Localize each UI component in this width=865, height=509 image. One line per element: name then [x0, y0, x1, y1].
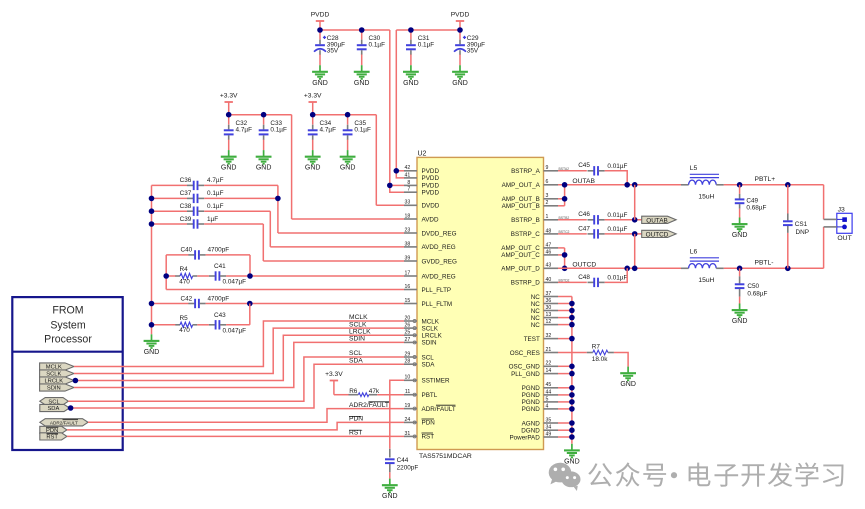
junction bus/C38: [149, 208, 155, 214]
wire pin 47: [558, 247, 565, 249]
svg-text:DVDD_REG: DVDD_REG: [422, 230, 457, 237]
svg-text:PVDD: PVDD: [451, 12, 470, 19]
capacitor C33: [263, 125, 265, 130]
wire OSC_RES: [558, 352, 587, 354]
pin 26 SCLK: [404, 327, 417, 329]
svg-text:GND: GND: [732, 318, 748, 325]
svg-text:AVDD: AVDD: [422, 216, 439, 223]
wire C37 left: [152, 197, 188, 199]
ground C50: [732, 304, 748, 318]
svg-text:C42: C42: [181, 295, 193, 302]
pin 30 NC: [544, 310, 559, 312]
wire PBTL+: [724, 184, 824, 186]
svg-text:AMP_OUT_C: AMP_OUT_C: [501, 245, 540, 252]
pin 34 DGND: [544, 429, 559, 431]
wire to pin 42: [396, 170, 404, 172]
svg-text:+3.3V: +3.3V: [325, 371, 343, 378]
pin 49 PowerPAD: [544, 436, 559, 438]
svg-text:43: 43: [546, 263, 552, 269]
wire to pin 33 DVDD: [376, 204, 404, 206]
svg-text:C38: C38: [180, 203, 192, 210]
wire R5-C43: [197, 324, 209, 326]
wire C30 top: [361, 30, 363, 40]
svg-text:48: 48: [546, 228, 552, 234]
svg-text:PVDD: PVDD: [422, 168, 440, 175]
junction C37/C36: [275, 196, 281, 202]
junction gnd bus: [569, 427, 575, 433]
pin 4 PGND: [544, 408, 559, 410]
wire to gnd bus: [558, 422, 572, 424]
wire pin 1 to C46: [558, 219, 587, 221]
junction gnd bus: [569, 399, 575, 405]
svg-text:OUTCD: OUTCD: [572, 261, 596, 268]
svg-text:AMP_OUT_B: AMP_OUT_B: [502, 203, 540, 210]
svg-text:OUTAB: OUTAB: [646, 217, 668, 224]
svg-text:14: 14: [546, 368, 552, 374]
svg-text:31: 31: [405, 431, 411, 437]
wire to pin 38 AVDD_REG: [270, 246, 404, 248]
wire C49 bottom: [739, 209, 741, 218]
capacitor: [209, 324, 215, 326]
junction pin46: [562, 252, 568, 258]
junction CS1 top: [785, 182, 791, 188]
wire 3.3V stem 2: [312, 102, 314, 115]
junction PVDD/C28: [317, 27, 323, 33]
pin 38 AVDD_REG: [404, 246, 417, 248]
wire C35 bottom: [347, 140, 349, 151]
svg-text:BSTRP_C: BSTRP_C: [511, 231, 540, 238]
wire to gnd bus: [558, 338, 572, 340]
svg-text:GND: GND: [732, 232, 748, 239]
wire to pin 18 AVDD: [292, 218, 404, 220]
svg-text:27: 27: [405, 337, 411, 343]
wire gnd bus vertical: [571, 297, 573, 444]
svg-text:PGND: PGND: [522, 385, 541, 392]
svg-text:28: 28: [405, 359, 411, 365]
svg-text:PVDD: PVDD: [422, 175, 440, 182]
svg-text:SCL: SCL: [349, 350, 362, 357]
junction gnd bus: [569, 420, 575, 426]
junction gnd bus: [569, 385, 575, 391]
capacitor C32: [228, 125, 230, 130]
svg-text:MCLK: MCLK: [422, 318, 440, 325]
svg-text:4.7µF: 4.7µF: [320, 126, 337, 133]
svg-text:C44: C44: [397, 457, 409, 464]
svg-text:PGND: PGND: [522, 399, 541, 406]
svg-text:LRCLK: LRCLK: [422, 333, 443, 340]
svg-text:PLL_GND: PLL_GND: [511, 371, 540, 378]
svg-text:C39: C39: [180, 216, 192, 223]
capacitor C39: [187, 223, 193, 225]
pin 32 TEST: [544, 338, 559, 340]
svg-text:9: 9: [546, 165, 549, 171]
svg-text:C36: C36: [180, 177, 192, 184]
svg-text:17: 17: [405, 270, 411, 276]
svg-text:SDIN: SDIN: [422, 340, 437, 347]
wire R6 to pin 11 PBTL: [377, 394, 404, 396]
svg-text:AVDD_REG: AVDD_REG: [422, 244, 456, 251]
svg-text:AMP_OUT_C: AMP_OUT_C: [501, 252, 540, 259]
svg-text:33: 33: [405, 200, 411, 206]
svg-text:37: 37: [546, 291, 552, 297]
junction C35: [345, 112, 351, 118]
ground IC bus: [564, 444, 580, 458]
svg-text:470: 470: [179, 278, 190, 285]
pin 27 SDIN: [404, 341, 417, 343]
svg-text:15uH: 15uH: [698, 193, 714, 200]
svg-text:DVDD: DVDD: [422, 203, 440, 210]
svg-text:PDN: PDN: [422, 420, 436, 427]
svg-text:GND: GND: [452, 80, 468, 87]
junction gnd bus: [569, 434, 575, 440]
wire to gnd bus: [558, 429, 572, 431]
ground C30: [354, 65, 370, 79]
pin 2 J3: [824, 226, 837, 228]
svg-text:25: 25: [405, 330, 411, 336]
pin 42 PVDD: [404, 170, 417, 172]
ground left bus: [144, 334, 160, 348]
svg-text:OUTCD: OUTCD: [646, 231, 669, 238]
wire C39 left: [152, 223, 188, 225]
wire 3.3V bus 1: [229, 114, 292, 116]
svg-text:2200pF: 2200pF: [397, 464, 419, 471]
junction gnd bus: [569, 301, 575, 307]
svg-text:NC: NC: [531, 315, 541, 322]
wire C38 left: [152, 210, 188, 212]
svg-text:SCL: SCL: [422, 354, 435, 361]
pin 9 BSTRP_A: [544, 170, 559, 172]
svg-text:NC: NC: [531, 294, 541, 301]
svg-text:18: 18: [405, 213, 411, 219]
svg-text:16: 16: [405, 284, 411, 290]
pin 40 BSTRP_D: [544, 281, 559, 283]
wire C35 top: [347, 115, 349, 125]
svg-text:ADR/FAULT: ADR/FAULT: [422, 406, 456, 413]
pin 31 RST: [404, 435, 417, 437]
svg-text:4700pF: 4700pF: [208, 247, 230, 254]
svg-text:GND: GND: [564, 458, 580, 465]
wire CS1 bottom: [787, 233, 789, 268]
pin 33 DVDD: [404, 204, 417, 206]
svg-text:SDA: SDA: [422, 362, 436, 369]
pin 23 DVDD_REG: [404, 232, 417, 234]
wire CS1 top: [787, 185, 789, 214]
wire RST: [67, 435, 404, 437]
pin 48 BSTRP_C: [544, 233, 559, 235]
svg-text:FROM: FROM: [52, 304, 83, 316]
svg-text:TAS5751MDCAR: TAS5751MDCAR: [419, 453, 472, 460]
svg-text:4.7µF: 4.7µF: [207, 177, 224, 184]
wire MCLK: [74, 321, 404, 367]
pin 11 PBTL: [404, 394, 417, 396]
junction C45/OUTAB: [624, 182, 630, 188]
wire to gnd bus: [558, 436, 572, 438]
wire PBTL-: [724, 267, 824, 269]
svg-text:GND: GND: [620, 381, 636, 388]
svg-text:0.68µF: 0.68µF: [747, 290, 767, 297]
wire to gnd bus: [558, 296, 572, 298]
wire R4-C41: [197, 275, 209, 277]
capacitor C37: [187, 197, 193, 199]
svg-text:System: System: [50, 320, 85, 332]
junction gnd bus: [569, 322, 575, 328]
svg-text:PGND: PGND: [522, 392, 541, 399]
junction OUTCD vert: [632, 266, 638, 272]
wire pin 46: [558, 254, 565, 256]
junction pin3: [562, 196, 568, 202]
svg-text:29: 29: [405, 351, 411, 357]
svg-text:11: 11: [405, 389, 410, 395]
wire C38 down: [269, 211, 271, 247]
svg-text:PLL_FLTM: PLL_FLTM: [422, 301, 453, 308]
svg-text:GND: GND: [312, 80, 328, 87]
svg-text:SDIN: SDIN: [47, 386, 61, 392]
junction pin6/pin3: [562, 182, 568, 188]
capacitor C35: [347, 125, 349, 130]
svg-text:C37: C37: [180, 190, 192, 197]
svg-text:15uH: 15uH: [698, 277, 714, 284]
junction gnd bus: [569, 364, 575, 370]
wire PDN: [67, 422, 404, 430]
junction pin 42 PVDD: [394, 168, 400, 174]
svg-text:C47: C47: [578, 225, 590, 232]
flag RST: [40, 433, 67, 440]
ground C44: [382, 479, 398, 493]
svg-text:AGND: AGND: [522, 420, 541, 427]
svg-text:PVDD: PVDD: [311, 12, 330, 19]
junction gnd bus: [569, 315, 575, 321]
wire right vert filter1: [249, 255, 251, 276]
svg-text:C45: C45: [578, 162, 590, 169]
capacitor CS1: [787, 214, 789, 221]
svg-text:MCLK: MCLK: [349, 314, 368, 321]
flag SDA: [40, 404, 70, 411]
capacitor C47: [588, 233, 594, 235]
svg-text:C43: C43: [214, 312, 226, 319]
svg-text:GND: GND: [256, 165, 272, 172]
watermark wechat logo: [549, 463, 581, 491]
junction PVDD/C29: [457, 27, 463, 33]
wire pin 2: [558, 205, 565, 207]
flag LRCLK: [40, 377, 74, 384]
capacitor: [209, 275, 215, 277]
pin 6 AMP_OUT_A: [544, 184, 559, 186]
inductor L6: [681, 267, 689, 269]
wire ADR2/FAULT: [88, 409, 404, 423]
wire 3.3V drop to DVDD: [375, 115, 377, 206]
svg-text:GND: GND: [354, 80, 370, 87]
ground C49: [732, 218, 748, 232]
capacitor C42: [188, 303, 194, 305]
wire to gnd bus: [558, 401, 572, 403]
capacitor C29: [459, 40, 461, 45]
capacitor C45: [588, 170, 594, 172]
wire R5 left: [152, 324, 177, 326]
wire SDA: [70, 364, 405, 408]
svg-text:C46: C46: [578, 211, 590, 218]
svg-text:+3.3V: +3.3V: [220, 93, 238, 100]
wire to gnd bus: [558, 387, 572, 389]
capacitor C40: [188, 254, 194, 256]
wire to gnd bus: [558, 408, 572, 410]
pin 17 AVDD_REG: [404, 275, 417, 277]
svg-text:0.1µF: 0.1µF: [354, 126, 371, 133]
svg-text:C48: C48: [578, 274, 590, 281]
junction filter1 right: [247, 273, 253, 279]
svg-text:PBTL+: PBTL+: [755, 176, 776, 183]
wire C28 bottom: [319, 55, 321, 66]
pin 20 MCLK: [404, 320, 417, 322]
wire C50 top: [739, 268, 741, 276]
wire C33 top: [263, 115, 265, 125]
junction C50: [737, 266, 743, 272]
svg-text:21: 21: [546, 347, 552, 353]
wire SCL: [68, 357, 404, 401]
wire C34 bottom: [312, 140, 314, 151]
power symbol +3.3V: [330, 380, 338, 382]
svg-text:47: 47: [546, 242, 552, 248]
watermark text: [588, 462, 843, 486]
svg-text:35V: 35V: [467, 48, 479, 55]
power symbol PVDD: [316, 20, 324, 22]
svg-text:0.1µF: 0.1µF: [207, 190, 224, 197]
inductor L5: [681, 184, 689, 186]
svg-text:BSTRP_D: BSTRP_D: [511, 280, 540, 287]
flag SCL: [40, 398, 69, 405]
svg-text:45: 45: [546, 382, 552, 388]
junction gnd bus: [569, 371, 575, 377]
ground C35: [340, 150, 356, 164]
svg-text:R4: R4: [180, 266, 189, 273]
svg-text:470: 470: [179, 327, 190, 334]
capacitor C46: [588, 219, 594, 221]
junction C33: [261, 112, 267, 118]
svg-text:DNP: DNP: [796, 229, 810, 236]
svg-text:0.01µF: 0.01µF: [607, 212, 627, 219]
junction gnd bus: [569, 392, 575, 398]
svg-text:OSC_GND: OSC_GND: [509, 364, 541, 371]
flag OUTCD: [642, 230, 676, 237]
pin 18 AVDD: [404, 218, 417, 220]
pin 14 PLL_GND: [544, 373, 559, 375]
svg-text:36: 36: [546, 298, 552, 304]
wire SSTIMER to C44: [390, 380, 404, 449]
wire to gnd bus: [558, 310, 572, 312]
svg-text:GVDD_REG: GVDD_REG: [422, 258, 457, 265]
pin 5 PGND: [544, 401, 559, 403]
svg-text:34: 34: [546, 425, 552, 431]
svg-text:SCLK: SCLK: [349, 321, 367, 328]
resistor R5: [175, 324, 180, 326]
junction gnd bus: [569, 336, 575, 342]
wire R4 left: [166, 275, 176, 277]
ground R7: [620, 367, 636, 381]
junction CS1 bottom: [785, 266, 791, 272]
junction OUTAB vert: [632, 182, 638, 188]
wire C36 left: [152, 184, 188, 186]
flag PDN: [40, 426, 67, 433]
junction pin43: [562, 266, 568, 272]
pin 8 PVDD: [404, 184, 417, 186]
svg-text:PowerPAD: PowerPAD: [509, 434, 540, 441]
capacitor C34: [312, 125, 314, 130]
svg-text:35V: 35V: [327, 48, 339, 55]
wire C47 to OUTCD flag: [605, 233, 642, 235]
svg-text:20: 20: [405, 315, 411, 321]
wire C36 right: [204, 184, 278, 186]
junction C48/OUTCD: [624, 266, 630, 272]
wire 3.3V drop to AVDD: [291, 115, 293, 219]
wire PVDD stem 2: [459, 21, 461, 30]
svg-text:4.7µF: 4.7µF: [236, 126, 253, 133]
wire OUTCD vertical: [634, 234, 636, 268]
svg-text:NC: NC: [531, 301, 541, 308]
svg-text:8: 8: [407, 180, 410, 186]
wire to gnd bus: [558, 303, 572, 305]
svg-text:0.01µF: 0.01µF: [607, 163, 627, 170]
svg-text:GND: GND: [403, 80, 419, 87]
pin 10 SSTIMER: [404, 379, 417, 381]
capacitor C48: [588, 281, 594, 283]
svg-text:39: 39: [405, 255, 411, 261]
svg-text:GND: GND: [382, 493, 398, 500]
ground C31: [403, 65, 419, 79]
junction C47/OUTCD: [632, 231, 638, 237]
capacitor C38: [187, 210, 193, 212]
wire OUTAB vertical: [634, 185, 636, 220]
pin 39 GVDD_REG: [404, 260, 417, 262]
svg-text:6: 6: [546, 179, 549, 185]
junction bus/C37: [149, 196, 155, 202]
wire pin 40 to C48: [558, 281, 587, 283]
junction bus/C42: [149, 301, 155, 307]
box divider: [12, 351, 122, 353]
svg-text:Processor: Processor: [44, 334, 92, 346]
svg-text:2: 2: [546, 200, 549, 206]
ground C34: [305, 150, 321, 164]
wire C28 top: [319, 30, 321, 40]
svg-text:24: 24: [405, 417, 411, 423]
power symbol +3.3V: [309, 101, 317, 103]
wire C31 bottom: [410, 55, 412, 66]
wire LRCLK: [74, 335, 404, 380]
junction LRCLK tip: [73, 378, 79, 384]
svg-text:PBTL-: PBTL-: [755, 260, 774, 267]
junction pin 8 PVDD: [387, 183, 393, 189]
wire C45 to OUTAB: [605, 171, 628, 185]
svg-text:15: 15: [405, 298, 411, 304]
svg-text:0.047µF: 0.047µF: [223, 327, 247, 334]
svg-text:AMP_OUT_A: AMP_OUT_A: [502, 182, 541, 189]
wire C36/C37 to pin 23: [277, 185, 279, 233]
capacitor C50: [739, 276, 741, 283]
wire AMP_OUT_A / OUTAB: [558, 184, 681, 186]
FROM System Processor box: [12, 297, 122, 450]
svg-text:7: 7: [407, 187, 410, 193]
pin 16 PLL_FLTP: [404, 289, 417, 291]
pin 41 PVDD: [404, 177, 417, 179]
svg-text:SCLK: SCLK: [422, 325, 439, 332]
wire C39 right: [204, 223, 263, 225]
wire SCLK: [74, 328, 404, 373]
svg-text:40: 40: [546, 277, 552, 283]
svg-text:OSC_RES: OSC_RES: [510, 350, 540, 357]
wire R6 left: [334, 394, 349, 396]
resistor R6: [349, 394, 359, 396]
svg-text:3: 3: [546, 193, 549, 199]
svg-text:C40: C40: [181, 247, 193, 254]
resistor R4: [175, 275, 180, 277]
